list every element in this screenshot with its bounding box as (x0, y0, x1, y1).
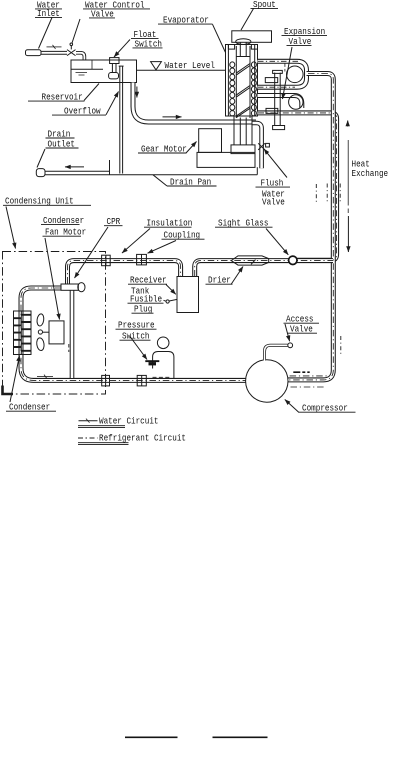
leader condenser (10, 356, 20, 403)
water inlet nozzle (26, 50, 42, 56)
leader spout (241, 9, 254, 31)
evaporator inner barrel (236, 43, 250, 119)
CPR riser pipe (70, 290, 75, 378)
label drain pan (167, 177, 217, 188)
label receiver tank (128, 275, 167, 297)
evaporator coil right column (251, 62, 256, 116)
label condenser fan motor (41, 215, 86, 238)
bottom pipe coupling left (102, 375, 110, 386)
leader sight glass (266, 229, 288, 255)
leader gear motor (186, 142, 197, 154)
label spout (251, 0, 279, 10)
drier (231, 256, 269, 265)
spout box (232, 31, 272, 43)
svg-text:Refrigerant Circuit: Refrigerant Circuit (99, 433, 186, 444)
condenser fan (36, 313, 49, 351)
expansion valve upper diaphragm (287, 66, 304, 83)
suction line pipe to compressor (288, 74, 333, 380)
evaporator coil left column (230, 62, 235, 116)
top refrigerant pipe CPR to receiver (68, 261, 181, 284)
heat exchange dash-dot marks lower (340, 336, 342, 356)
label CPR (104, 216, 123, 227)
leader drain outlet (37, 149, 45, 168)
receiver tank (177, 277, 199, 313)
leader fusible plug (164, 299, 166, 302)
label fusible plug (128, 294, 164, 315)
label insulation (144, 218, 192, 229)
label evaporator (158, 15, 213, 26)
leader water inlet (39, 18, 53, 49)
heat exchange bracket line (347, 140, 349, 215)
CPR body (61, 283, 85, 292)
evaporator bottom column (234, 116, 252, 145)
flush water valve (258, 143, 269, 150)
tank chute wall and bottom (133, 83, 256, 123)
label water level (165, 60, 215, 71)
leader access valve (285, 324, 290, 341)
label drain outlet (46, 129, 79, 150)
label gear motor (138, 144, 187, 155)
tick symbol on discharge pipe (37, 375, 53, 379)
label flush water valve (256, 178, 291, 208)
water control valve body (67, 43, 76, 56)
flush water pipe (253, 123, 262, 168)
drain pipe (45, 171, 110, 174)
expansion valve lower diaphragm (289, 95, 303, 109)
liquid line pipe to sight glass (258, 113, 337, 260)
label coupling (162, 230, 205, 241)
label overflow (52, 106, 106, 117)
leader compressor (285, 400, 299, 413)
label float switch (131, 29, 163, 49)
leader pressure switch (130, 337, 147, 360)
float switch (109, 58, 119, 79)
heat exchange down arrow (347, 216, 349, 252)
leader condensing unit (6, 207, 16, 249)
evaporator casing (226, 45, 258, 117)
leader flush water valve (264, 149, 287, 178)
bottom pipe coupling right (137, 375, 146, 386)
spout flange (236, 39, 251, 45)
evaporator pedestal (231, 145, 255, 154)
water inlet pipe (41, 45, 67, 54)
leader reservoir (84, 84, 99, 101)
water level line (137, 69, 226, 71)
compressor (246, 360, 288, 402)
label drier (206, 275, 233, 286)
flow arrow right in chute (163, 116, 182, 118)
label water control valve (83, 0, 150, 20)
drain outlet nozzle (36, 169, 45, 177)
expansion valve upper loop pipe (258, 61, 307, 87)
legend water circuit (78, 416, 159, 428)
label heat exchange (352, 159, 389, 179)
svg-text:Exchange: Exchange (352, 168, 389, 179)
insulation coupling right (137, 254, 147, 265)
heat exchange dash-dot marks upper (316, 184, 340, 204)
page footer line right (213, 736, 268, 738)
page footer line left (125, 736, 178, 738)
access valve pipe (265, 343, 293, 361)
label condensing unit (3, 196, 91, 207)
label expansion valve (282, 26, 328, 47)
heat exchange up arrow (347, 121, 349, 127)
pressure switch (145, 337, 174, 379)
overflow standpipe (119, 66, 124, 173)
leader insulation (122, 229, 150, 254)
leader expansion valve (283, 47, 293, 99)
gear motor box (199, 129, 222, 153)
reservoir (71, 60, 137, 83)
condenser loop pipe (21, 288, 246, 380)
flow arrow down in chute (136, 87, 138, 98)
drain pan (110, 160, 258, 175)
sight glass (289, 256, 297, 264)
leader condenser fan motor (45, 238, 60, 320)
leader drain pan (153, 175, 167, 186)
evaporator platform (197, 152, 255, 167)
expansion valve plunger column (265, 70, 284, 129)
top refrigerant pipe receiver to sight glass (195, 261, 333, 277)
leader evaporator (213, 24, 226, 52)
leader coupling (148, 241, 177, 254)
auger flights (237, 64, 250, 118)
svg-text:Water Level: Water Level (165, 60, 215, 71)
label pressure switch (116, 320, 157, 342)
condenser fan motor box (49, 321, 69, 352)
fusible plug (166, 299, 177, 303)
water level triangle (151, 62, 162, 70)
leader water control valve (72, 19, 80, 43)
label condenser (6, 402, 56, 413)
inlet elbow into reservoir (76, 53, 84, 61)
leader drier (231, 267, 243, 285)
label compressor (299, 403, 356, 414)
expansion valve lower loop pipe (258, 96, 302, 109)
label access valve (284, 314, 320, 335)
svg-text:Water Circuit: Water Circuit (99, 416, 159, 427)
condenser coil (14, 311, 32, 355)
leader receiver tank (166, 285, 176, 295)
flow arrow left on drain pipe (65, 166, 84, 168)
leader overflow (106, 92, 119, 115)
label sight glass (215, 218, 273, 229)
dash-dot marks between valve loops (284, 64, 286, 72)
label water inlet (35, 0, 62, 19)
svg-text:Valve: Valve (262, 197, 285, 208)
compressor right dash-dot stubs (290, 372, 329, 387)
condensing unit dash-dot border (3, 252, 106, 395)
legend refrigerant circuit (78, 433, 186, 445)
label reservoir (28, 92, 85, 103)
leader CPR (75, 227, 109, 278)
insulation coupling left (102, 255, 111, 266)
leader float switch (114, 40, 130, 58)
